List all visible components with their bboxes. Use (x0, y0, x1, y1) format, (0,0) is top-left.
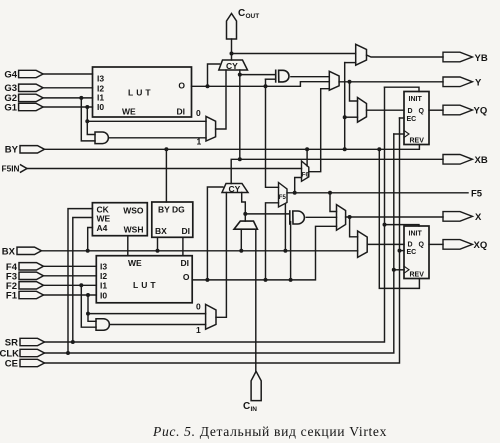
wire G2 down to AND1 lower input (81, 98, 95, 141)
node dome output (243, 212, 247, 216)
wire F6 riser to Y mux input 3 (309, 89, 330, 172)
svg-text:INIT: INIT (409, 96, 423, 103)
carry mux CY1 (219, 60, 248, 71)
node G1/mux0 branch (85, 119, 89, 123)
wire BY down to F6 select (306, 149, 308, 166)
wire F5 down to mux4 input 1 (330, 193, 337, 212)
svg-text:0: 0 (196, 302, 201, 312)
svg-text:LUT: LUT (128, 88, 154, 98)
wire BYDG BX pin to BX line (157, 237, 159, 251)
node O2 to CY2 (205, 278, 209, 282)
connector CLK (0, 348, 45, 359)
mux F6 (302, 161, 310, 181)
box BY DG (152, 202, 193, 237)
wire F5 out line to F5 label (287, 192, 468, 194)
wire YB mux out (367, 55, 444, 57)
node F5 to mux4 (328, 191, 332, 195)
wire CE line up to FF1 EC (45, 118, 400, 363)
svg-text:BY: BY (5, 145, 19, 156)
connector XQ (443, 240, 487, 251)
svg-text:BX: BX (155, 226, 167, 236)
wire XOR2 input 2 from LUT2 O (290, 222, 292, 280)
svg-text:Q: Q (419, 241, 425, 248)
wire O up to CY1 left input (208, 64, 220, 86)
wire G1 to I0 (43, 106, 92, 108)
node CE to FF2 (398, 249, 402, 253)
wire BYDG DI pin to LUT2 DI (182, 237, 184, 255)
wire F5IN to F6 input 1 (27, 168, 302, 170)
wire Y down to mux3 input 1 (350, 82, 358, 101)
connector F4 (6, 262, 44, 273)
svg-text:I3: I3 (97, 74, 104, 84)
connector F3 (6, 271, 44, 282)
node SR to FF2 INIT (383, 223, 387, 227)
input connector G3 (4, 83, 43, 94)
connector C_OUT (227, 8, 260, 39)
carry mux CY2 (222, 184, 248, 194)
xor gate X2 (290, 211, 305, 224)
wire BY riser to YB mux input 2 (345, 62, 356, 64)
svg-text:BX: BX (2, 247, 16, 258)
wire CK pin to CLK line (68, 209, 92, 353)
svg-text:I1: I1 (100, 281, 107, 291)
svg-text:F5: F5 (279, 195, 287, 201)
flip-flop FF1 (404, 92, 429, 145)
wire SR loop into FF1 INIT (385, 87, 420, 91)
LUT F (lower LUT U2) (96, 256, 192, 303)
svg-text:I2: I2 (100, 271, 107, 281)
wire BY down into BYDG (165, 149, 167, 202)
node BY to F6 (305, 147, 309, 151)
node X branch (348, 215, 352, 219)
wire O2 up to CY2 left input (207, 187, 222, 280)
node F1 branch (86, 293, 90, 297)
svg-text:REV: REV (410, 272, 425, 279)
control box WS (CK WE A4 / WSO WSH) (92, 203, 147, 236)
node CLK to FF2 (392, 268, 396, 272)
svg-text:DI: DI (182, 226, 191, 236)
svg-text:WE: WE (122, 107, 136, 117)
svg-text:WE: WE (128, 258, 142, 268)
svg-text:Y: Y (475, 77, 482, 88)
mux FF1-D (mux3) (358, 98, 367, 123)
wire XOR2 out to mux4 input 2 (306, 216, 336, 218)
wire DI-mux1 out up to CY1 (216, 70, 226, 129)
wire CE to FF1 EC (400, 117, 405, 119)
svg-text:DI: DI (181, 258, 190, 268)
svg-text:X: X (475, 212, 482, 223)
svg-text:F6: F6 (302, 173, 310, 179)
wire mux3 out to FF1 D (367, 109, 405, 111)
wire F2 (44, 284, 97, 286)
svg-text:IN: IN (251, 406, 258, 413)
svg-text:Рис. 5. Детальный вид секции V: Рис. 5. Детальный вид секции Virtex (152, 424, 387, 439)
wire FF1 Q to YQ (429, 109, 443, 111)
svg-text:CY: CY (226, 61, 238, 71)
node BY riser to mux3 (343, 115, 347, 119)
wire dome left leg to BX (240, 229, 242, 251)
svg-text:BY DG: BY DG (158, 204, 185, 214)
node O to CY1 (206, 84, 210, 88)
svg-text:XQ: XQ (474, 240, 488, 251)
mux Y (mux2) (329, 71, 339, 90)
wire F5 up to F6 input 2 (295, 178, 302, 193)
wire LUT1 O output line (192, 82, 330, 87)
wire XOR1 input 2 stub (266, 78, 276, 80)
wire to DI-mux1 input 0 (87, 120, 206, 122)
wire CE to FF2 EC (400, 250, 405, 252)
svg-text:I0: I0 (100, 290, 107, 300)
node O2 to XOR2 (289, 278, 293, 282)
input connector G1 (4, 102, 43, 113)
mux DI-mux2 (206, 304, 216, 329)
wire O down to F5 input 1 (266, 79, 279, 187)
svg-text:F1: F1 (6, 291, 18, 302)
input connector G4 (4, 69, 43, 80)
node BYDG-BX (156, 249, 160, 253)
connector X (443, 212, 482, 223)
svg-text:WSH: WSH (124, 225, 144, 235)
connector SR (5, 337, 45, 348)
connector BX (2, 247, 42, 258)
mux FF2-D (mux5) (358, 231, 368, 257)
node F2 branch (79, 283, 83, 287)
node carry chain (238, 157, 242, 161)
svg-text:F5: F5 (471, 188, 483, 199)
wire DI-mux2 out up to CY2 (216, 193, 226, 318)
svg-text:EC: EC (407, 116, 417, 123)
wire F3 (44, 275, 97, 277)
wire CLK line up to FF1 clock (45, 134, 394, 353)
mux YB (mux1) (356, 44, 367, 65)
and gate dome (MULT AND) (234, 221, 257, 229)
wire F4 (44, 265, 97, 267)
svg-text:YB: YB (475, 53, 488, 64)
wire mux5 out to FF2 D (367, 243, 404, 245)
svg-text:OUT: OUT (246, 13, 260, 20)
node BY to FF2 REV (377, 147, 381, 151)
node CK-CLK (66, 351, 70, 355)
connector F5IN (2, 164, 27, 174)
wire C_OUT stem (231, 39, 233, 60)
svg-text:0: 0 (196, 108, 201, 118)
node O2 to F5 (264, 278, 268, 282)
svg-text:C: C (243, 401, 250, 412)
wire mux4 out to X connector (346, 216, 443, 218)
svg-text:I1: I1 (97, 92, 104, 102)
svg-text:O: O (178, 80, 185, 90)
svg-text:G4: G4 (4, 69, 17, 80)
mux F5 (279, 183, 288, 208)
wire BY line (45, 145, 420, 150)
wire to mux3 input 2 (345, 116, 358, 118)
wire dome right leg down to C_IN (255, 229, 257, 371)
wire CLK to FF2 clock (394, 269, 404, 271)
node G2 branch (79, 96, 83, 100)
wire LUT2 O output line (192, 226, 336, 280)
wire COUT to YB mux (232, 53, 356, 55)
svg-text:YQ: YQ (474, 106, 488, 117)
node BY to YB riser (343, 147, 347, 151)
wire CY2 right leg to dome node (242, 193, 246, 214)
wire F5 select from BX (284, 205, 286, 251)
node BX to F5 select (283, 249, 287, 253)
wire AND3 out to DI-mux2 input 1 (110, 324, 206, 326)
wire CLK to FF1 clock (394, 133, 404, 135)
svg-text:A4: A4 (97, 223, 108, 233)
wire to DI-mux2 input 0 (88, 313, 206, 315)
wire Y mux out to Y connector (339, 81, 443, 83)
input connector G2 (4, 93, 43, 104)
wire F2 down to AND3 lower input (81, 285, 96, 327)
node F1/mux0 branch (86, 312, 90, 316)
connector YQ (443, 105, 487, 116)
wire G1 down to AND1 upper input (87, 107, 95, 135)
wire BY down to FF2 REV (379, 149, 419, 288)
and gate A3 (write AND lower) (96, 319, 109, 331)
wire CY1 right leg down to carry line (239, 70, 241, 159)
wire G2 to I1 (43, 97, 92, 99)
svg-text:LUT: LUT (133, 280, 159, 290)
svg-text:1: 1 (197, 136, 202, 146)
svg-text:G1: G1 (4, 102, 17, 113)
mux X (mux4) (337, 205, 346, 231)
wire G4 to I3 (43, 73, 92, 75)
connector YB (443, 52, 488, 64)
svg-text:INIT: INIT (409, 231, 423, 238)
mux DI-mux1 (206, 116, 216, 141)
wire G3 to I2 (43, 87, 92, 89)
wire AND1 out to DI-mux1 input 1 (109, 137, 206, 139)
svg-text:SR: SR (5, 337, 18, 348)
svg-text:F5IN: F5IN (2, 164, 20, 174)
wire XOR1 out to Y mux (291, 76, 329, 78)
svg-text:WSO: WSO (123, 206, 144, 216)
LUT G (upper LUT U1) (93, 67, 192, 117)
svg-text:DI: DI (177, 107, 186, 117)
connector Y (443, 77, 482, 88)
wire WE pin to SR line (73, 218, 93, 343)
and gate A1 (write AND upper) (95, 132, 108, 144)
node Y branch (348, 80, 352, 84)
flip-flop FF2 (404, 226, 429, 279)
svg-text:EC: EC (407, 249, 417, 256)
node F5 to F6 (293, 191, 297, 195)
connector F1 (6, 291, 44, 302)
svg-text:O: O (183, 272, 190, 282)
wire A4 pin to BX line (88, 228, 93, 251)
node COUT line (230, 52, 234, 56)
wire X down to mux5 input 1 (350, 217, 358, 237)
node A4-BX (86, 249, 90, 253)
connector XB (443, 155, 488, 166)
wire BY riser (344, 63, 346, 150)
wire F1 down to AND3 upper input (88, 295, 96, 321)
node WE-SR (71, 340, 75, 344)
svg-text:XB: XB (475, 155, 488, 166)
svg-text:D: D (408, 108, 413, 115)
connector C_IN (243, 371, 261, 413)
wire SR loop into FF2 INIT (385, 225, 420, 226)
wire F1 (44, 294, 97, 296)
node BX to dome (239, 249, 243, 253)
svg-text:1: 1 (196, 325, 201, 335)
svg-text:I3: I3 (100, 261, 107, 271)
svg-text:CY: CY (229, 184, 241, 194)
node O to XOR1/F5 (264, 84, 268, 88)
wire CY2 output to XB line (231, 159, 443, 183)
svg-text:C: C (238, 8, 245, 19)
wire BX line to mux5 (42, 250, 358, 252)
connector BY (5, 145, 45, 156)
connector F2 (6, 281, 44, 292)
wire FF2 Q to XQ (429, 243, 443, 245)
node BY to BYDG (164, 147, 168, 151)
wire to XOR1 input 1 (240, 74, 276, 76)
svg-text:WE: WE (97, 214, 111, 224)
wire SR line up to FF1 INIT (45, 87, 385, 342)
connector CE (5, 358, 45, 369)
xor gate X1 (276, 70, 289, 82)
node G1 branch (85, 105, 89, 109)
svg-text:Q: Q (419, 108, 425, 115)
wire F5 input 2 from LUT2 O (266, 203, 279, 280)
wire dome node to XOR2 input 1 (245, 213, 289, 215)
wire control box WE output to LUT2 WE (127, 236, 129, 256)
node CY1 leg to XOR1 (238, 73, 242, 77)
svg-text:CE: CE (5, 358, 18, 369)
svg-text:I0: I0 (97, 102, 104, 112)
svg-text:D: D (408, 241, 413, 248)
svg-text:REV: REV (410, 138, 425, 145)
wire dome node down to dome top (244, 214, 246, 221)
